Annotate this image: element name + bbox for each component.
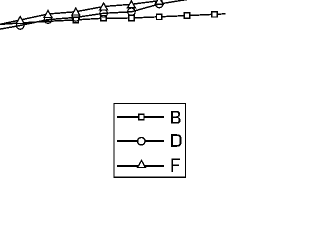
- legend box: [114, 103, 185, 177]
- series B square markers: [73, 12, 217, 23]
- series F triangle markers: [16, 0, 163, 23]
- legend row D line: [117, 140, 164, 142]
- legend row F line: [117, 165, 164, 167]
- legend row B square: [139, 114, 144, 119]
- series D circle markers (unfilled): [16, 0, 163, 29]
- legend label B: [171, 111, 180, 124]
- series B line: [0, 14, 225, 25]
- series D line: [0, 0, 187, 30]
- series F line: [0, 0, 163, 25]
- legend label D: [171, 134, 181, 147]
- legend row D circle: [138, 137, 146, 145]
- legend row F triangle: [138, 160, 146, 167]
- legend row B line: [117, 116, 164, 118]
- legend label F: [171, 158, 180, 172]
